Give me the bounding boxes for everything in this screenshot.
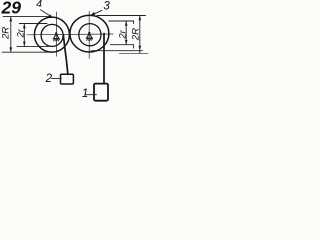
weight 1 box bbox=[94, 84, 108, 101]
arrowhead up dim 2r right bbox=[125, 21, 128, 26]
leader line label 2 bbox=[52, 77, 62, 79]
arrowhead up dim 2R left bbox=[10, 17, 13, 22]
horizontal centerline through both pulleys bbox=[27, 33, 113, 36]
arrowhead down dim 2R left bbox=[10, 47, 13, 52]
svg-text:1: 1 bbox=[82, 88, 88, 100]
extension line top 2r left bbox=[19, 23, 47, 25]
dimension line 2r right bbox=[125, 21, 127, 45]
svg-text:2r: 2r bbox=[117, 29, 128, 39]
weight 2 box bbox=[61, 74, 74, 84]
vertical centerline pulley 3 bbox=[88, 12, 90, 59]
extension line bottom 2r left bbox=[17, 45, 49, 47]
string to weight 2 bbox=[63, 35, 67, 74]
svg-text:4: 4 bbox=[36, 0, 42, 10]
dimension line 2R left bbox=[10, 17, 12, 53]
svg-text:29: 29 bbox=[1, 0, 22, 18]
arrowhead leader 4 bbox=[49, 14, 53, 17]
leader line label 4 bbox=[41, 10, 52, 17]
svg-text:3: 3 bbox=[103, 0, 110, 12]
extension line bottom 2R right bbox=[91, 50, 142, 52]
leader line label 1 bbox=[86, 94, 97, 96]
extension line bottom 2R left bbox=[2, 51, 50, 53]
pulley 4 outer circle bbox=[34, 17, 69, 52]
arrowhead leader 3 bbox=[90, 12, 95, 16]
extension line bottom 2r right bbox=[110, 45, 133, 48]
vertical centerline pulley 4 bbox=[55, 12, 57, 56]
axle pivot pulley 4 bbox=[53, 32, 60, 41]
extension line top 2r right bbox=[109, 21, 134, 24]
pulley 4 inner circle bbox=[41, 24, 63, 46]
svg-text:2R: 2R bbox=[130, 28, 141, 41]
leader line label 3 bbox=[93, 10, 102, 15]
arrowhead down dim 2r right bbox=[125, 40, 128, 45]
arrowhead down dim 2r left bbox=[23, 42, 26, 47]
svg-text:2R: 2R bbox=[0, 27, 11, 40]
dimension line 2r left bbox=[23, 24, 25, 47]
arrowhead down dim 2R right bbox=[139, 46, 142, 51]
extension line top 2R left bbox=[3, 16, 50, 18]
svg-text:2r: 2r bbox=[15, 28, 26, 38]
lower guide line bottom right bbox=[119, 53, 148, 55]
string to weight 1 bbox=[103, 34, 105, 84]
dimension line 2R right bbox=[139, 16, 141, 54]
axle pivot pulley 3 bbox=[86, 32, 93, 41]
arrowhead up dim 2r left bbox=[23, 24, 26, 29]
pulley 3 outer circle bbox=[70, 15, 109, 52]
pulley 3 inner circle bbox=[79, 24, 101, 46]
svg-text:2: 2 bbox=[45, 73, 53, 85]
extension line top 2R right bbox=[97, 15, 146, 17]
arrowhead up dim 2R right bbox=[139, 16, 142, 21]
